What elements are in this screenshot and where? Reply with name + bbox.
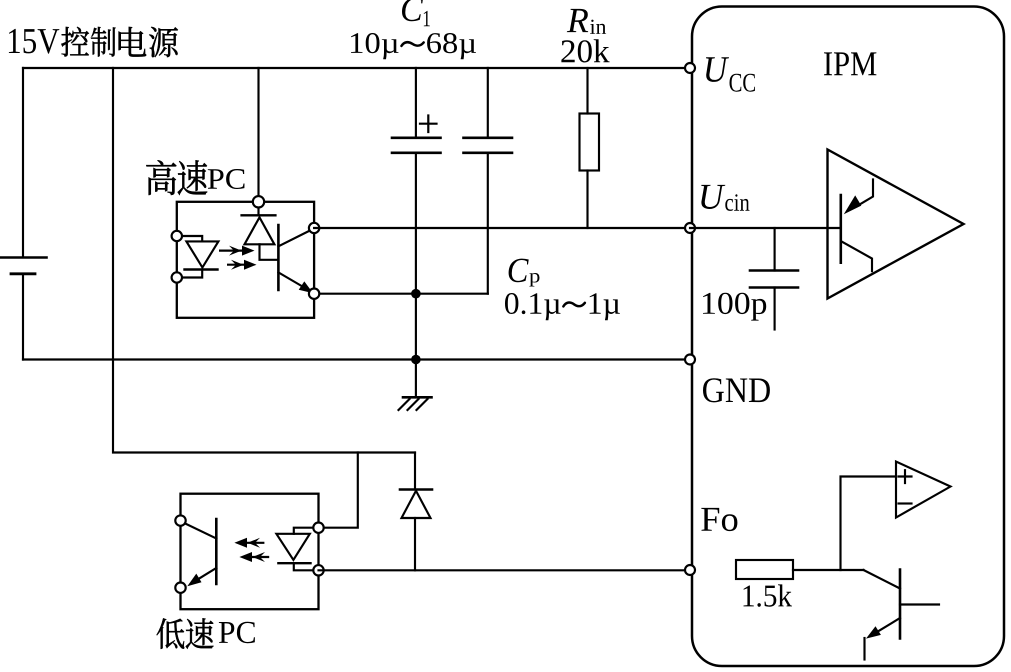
resistor Rin body <box>580 114 600 171</box>
pin UCC <box>685 63 695 73</box>
pin: high-speed PC cathode <box>172 272 182 282</box>
pin: high-speed PC top <box>253 196 264 207</box>
pin label Ucin <box>701 185 749 211</box>
pin Fo <box>685 565 695 575</box>
wire: high-speed PC emitter to cap node <box>314 293 488 295</box>
pin: high-speed PC collector out <box>309 223 319 233</box>
LED D1 of high-speed PC <box>185 241 219 269</box>
pin: high-speed PC anode <box>172 231 182 241</box>
optocoupler low-speed PC package box <box>181 494 319 610</box>
battery B1: negative plate <box>11 272 35 275</box>
wire: battery positive lead <box>22 68 24 257</box>
wire: diode branch vertical <box>414 453 416 490</box>
junction: C1 / ground rail node <box>411 355 421 365</box>
transistor Q3: base bar <box>899 570 902 639</box>
capacitor C1 electrolytic: polarity plus sign <box>420 116 437 133</box>
net label: 15V control power supply (15V控制电源) <box>9 27 178 57</box>
value label 20k <box>561 39 609 62</box>
transistor Q3: emitter lead with arrow <box>866 618 900 639</box>
pin: low-speed PC anode <box>313 523 323 533</box>
comparator plus input mark <box>899 470 912 483</box>
label low-speed PC (低速PC) <box>157 618 255 649</box>
label high-speed PC (高速PC) <box>146 160 244 195</box>
label Cp <box>509 259 540 287</box>
wire: Ucin inside IPM to input amp <box>690 227 841 229</box>
battery B1: positive plate <box>0 256 47 259</box>
capacitor 100p: top lead <box>774 228 776 271</box>
ground symbol <box>399 397 432 410</box>
label IPM <box>824 52 876 75</box>
phototransistor Q2 of low-speed PC <box>181 519 216 586</box>
label C1 <box>402 0 430 26</box>
collector stub inside U1 with light arrow <box>844 180 873 215</box>
wire: ground rail to IPM GND pin <box>23 358 690 360</box>
wire: LED2 anode link from top-right pin <box>294 528 319 534</box>
comparator minus input mark <box>899 502 912 504</box>
value label 10u~68u <box>351 33 476 59</box>
transistor Q3: base lead diagonal <box>864 570 901 589</box>
value label 1.5k <box>744 584 793 606</box>
pin label GND <box>703 378 770 402</box>
internal diode of high-speed PC <box>242 215 279 259</box>
capacitor C1 film: plates <box>464 138 513 153</box>
value label 0.1u~1u <box>505 293 620 320</box>
resistor Rin: top lead <box>586 68 588 114</box>
LED D3 of low-speed PC <box>276 534 310 563</box>
pin Ucin <box>685 223 695 233</box>
wire: Ucin net from PC collector to IPM <box>314 227 690 229</box>
capacitor 100p: bottom lead <box>774 288 776 330</box>
wire: LED1 anode link <box>177 236 202 241</box>
capacitor C1 film: top lead <box>487 68 489 137</box>
pin: low-speed PC cathode <box>313 565 323 575</box>
optocoupler high-speed PC package box <box>177 202 314 318</box>
pin: high-speed PC emitter out <box>309 289 319 299</box>
wire: film cap bottom lead <box>487 154 489 294</box>
diode D2 cathode bar <box>400 490 432 571</box>
wire: LED2 cathode link to bottom-right pin <box>294 563 319 570</box>
capacitor C1 electrolytic: plates <box>392 138 441 153</box>
emitter stub inside U1 <box>842 242 873 272</box>
pin GND <box>685 355 695 365</box>
label Rin <box>567 9 606 34</box>
wire: diode D2 anode lead <box>414 518 416 570</box>
pin label Fo <box>701 508 737 531</box>
wire: branch up to comparator plus input <box>841 477 897 571</box>
pin label UCC <box>706 57 755 91</box>
photodetector bar inside U1 <box>839 195 842 263</box>
wire: LED1 cathode link <box>177 270 202 278</box>
wire: Q3 emitter tail <box>863 638 865 660</box>
wire: top pin to internal diode <box>257 202 259 216</box>
resistor R 1.5k body <box>736 560 793 579</box>
pin: low-speed PC collector <box>175 515 185 525</box>
wire: rail drop to high-speed PC top pin <box>257 68 259 202</box>
transistor Q3: collector lead <box>900 603 939 605</box>
light arrows of high-speed PC <box>219 246 257 270</box>
comparator U2 triangle <box>896 462 951 518</box>
wire: +15V top rail <box>23 67 690 69</box>
wire: battery negative lead <box>22 275 24 360</box>
wire: branch down to low-speed PC anode pin <box>319 453 358 528</box>
phototransistor Q1 of high-speed PC <box>278 225 313 293</box>
wire: Rin bottom lead to Ucin net <box>586 171 588 229</box>
light arrows of low-speed PC <box>234 538 269 562</box>
value label 100p <box>703 293 766 321</box>
capacitor C1 electrolytic: top lead <box>415 68 417 137</box>
wire: 1.5k to transistor base <box>793 569 864 571</box>
junction: C1 / emitter node <box>411 289 421 299</box>
pin: low-speed PC emitter <box>175 583 185 593</box>
wire: rail drop to low-speed PC branch <box>113 68 415 453</box>
wire: Fo net from PC cathode to IPM Fo pin <box>319 569 691 571</box>
capacitor 100p plates <box>750 271 798 288</box>
diode D2 body <box>402 491 431 518</box>
IPM module outline <box>692 7 1004 667</box>
input amplifier triangle U1 <box>828 150 964 299</box>
wire: C1 bottom lead down to ground symbol <box>415 154 417 398</box>
